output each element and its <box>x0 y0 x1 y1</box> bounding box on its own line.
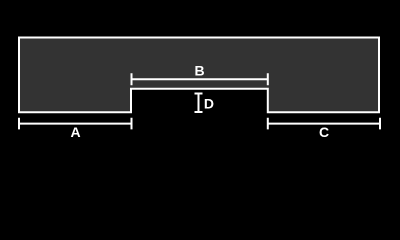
dimension line B <box>132 73 268 85</box>
svg-text:A: A <box>70 124 80 140</box>
notched plate cross-section outline <box>19 38 379 113</box>
dimension line A <box>19 118 132 130</box>
svg-text:C: C <box>319 124 329 140</box>
dimension line C <box>268 118 380 130</box>
svg-text:B: B <box>194 63 204 79</box>
svg-text:D: D <box>204 96 214 112</box>
dimension line D (vertical with end caps) <box>195 94 203 113</box>
